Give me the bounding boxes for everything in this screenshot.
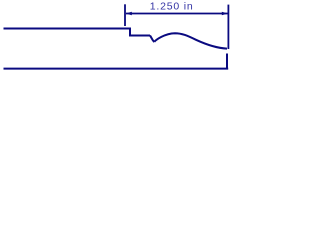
svg-text:1.250 in: 1.250 in (150, 1, 194, 13)
